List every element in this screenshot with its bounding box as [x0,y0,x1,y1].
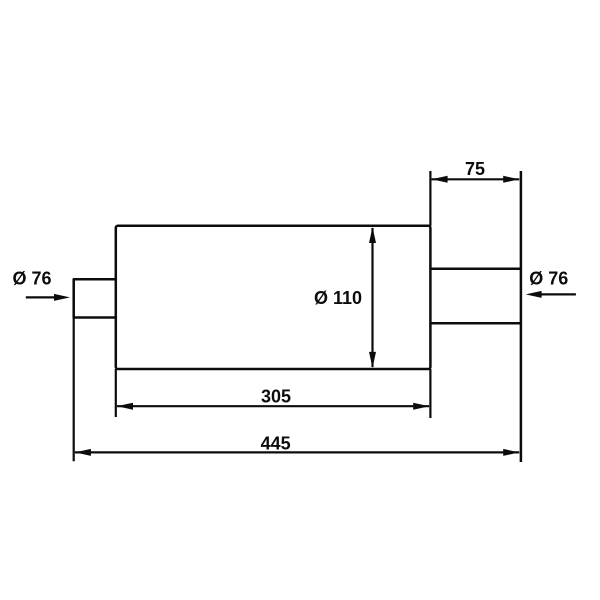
extension line above body right edge for 75 dimension [429,171,431,226]
arrowhead 305 left [117,403,133,410]
arrowhead 110 top [369,227,376,243]
arrowhead 76 right [526,291,542,298]
arrowhead 76 left [54,294,70,301]
svg-text:305: 305 [261,387,291,407]
arrowhead 110 bottom [369,352,376,368]
dimension line 445 [75,451,519,453]
outlet pipe (right) bottom edge [430,322,520,325]
extension line below body right edge for 305 dimension [429,369,431,418]
extension line at inlet pipe left edge down to 445 dimension [73,279,75,461]
arrowhead 75 left [432,176,448,183]
svg-text:Ø 76: Ø 76 [529,269,568,289]
arrowhead 445 right [503,449,519,456]
leader arrow 76 left [26,296,56,298]
outlet pipe right edge + extension line (75 dim top to 445 dim bottom) [520,171,523,462]
svg-text:Ø 76: Ø 76 [13,269,52,289]
inlet pipe (left) outline [74,279,116,317]
extension line below body left edge for 305 dimension [115,369,117,417]
arrowhead 305 right [413,403,429,410]
leader arrow 76 right [540,293,576,295]
svg-text:75: 75 [465,159,485,179]
dimension line diameter 110 (vertical double arrow) [371,228,373,367]
muffler body outline [116,226,431,369]
svg-text:Ø 110: Ø 110 [314,288,362,308]
outlet pipe (right) top edge [430,267,520,270]
arrowhead 445 left [75,449,91,456]
arrowhead 75 right [503,176,519,183]
dimension line 305 [117,405,429,407]
dimension line 75 [432,178,520,180]
svg-text:445: 445 [261,434,291,454]
